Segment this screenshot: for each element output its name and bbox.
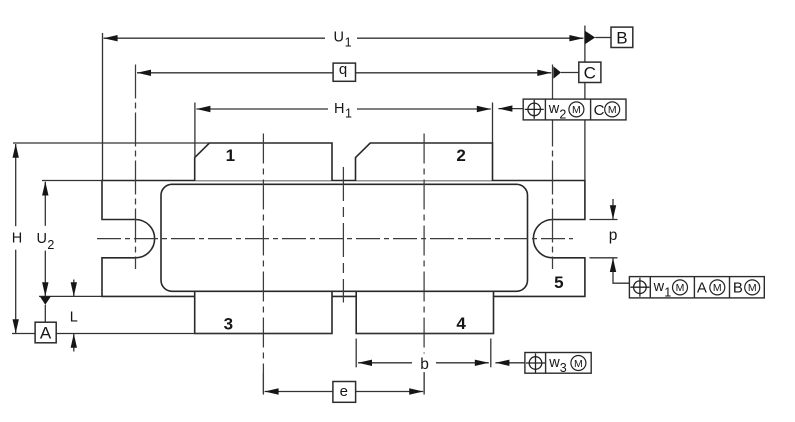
svg-text:w: w [548, 101, 560, 117]
svg-text:w: w [653, 279, 665, 295]
svg-text:3: 3 [560, 361, 567, 375]
svg-text:M: M [608, 104, 617, 116]
svg-text:2: 2 [456, 146, 465, 165]
svg-text:H: H [334, 101, 344, 117]
svg-text:3: 3 [224, 315, 233, 334]
svg-text:A: A [40, 324, 52, 343]
svg-text:M: M [574, 358, 583, 370]
svg-text:L: L [70, 309, 78, 325]
svg-text:H: H [12, 230, 22, 246]
svg-text:C: C [584, 63, 596, 82]
svg-text:b: b [420, 356, 429, 373]
svg-text:U: U [334, 29, 344, 45]
svg-text:B: B [616, 28, 627, 47]
svg-text:C: C [594, 102, 605, 119]
svg-text:M: M [676, 282, 685, 294]
svg-text:2: 2 [47, 238, 54, 252]
svg-text:M: M [572, 104, 581, 116]
svg-text:2: 2 [559, 108, 566, 122]
svg-text:q: q [339, 61, 347, 78]
svg-text:p: p [609, 227, 618, 244]
svg-text:1: 1 [664, 286, 671, 300]
svg-text:A: A [697, 280, 707, 297]
svg-text:w: w [548, 355, 560, 371]
svg-text:B: B [733, 280, 743, 297]
svg-text:U: U [37, 231, 47, 247]
svg-text:1: 1 [226, 146, 235, 165]
svg-text:1: 1 [345, 35, 352, 49]
svg-text:e: e [340, 383, 348, 400]
svg-text:1: 1 [345, 106, 352, 120]
svg-text:4: 4 [456, 314, 466, 333]
svg-text:M: M [713, 282, 722, 294]
svg-text:M: M [748, 282, 757, 294]
svg-text:5: 5 [554, 273, 563, 292]
